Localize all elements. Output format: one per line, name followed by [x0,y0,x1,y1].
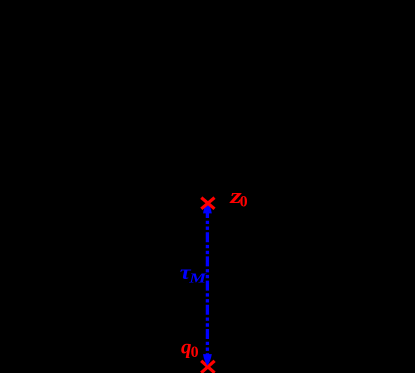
wire: dash-dot measurement line tau_M [206,208,209,362]
marker X2 (charge position q0, bottom) [201,361,214,373]
svg-text:M: M [188,270,207,286]
svg-text:0: 0 [191,344,199,361]
arrowhead up (top of tau_M arrow) [203,202,212,214]
svg-text:0: 0 [240,194,248,211]
marker X1 (image position z0, top) [201,198,214,209]
arrowhead down (bottom of tau_M arrow) [203,354,212,366]
